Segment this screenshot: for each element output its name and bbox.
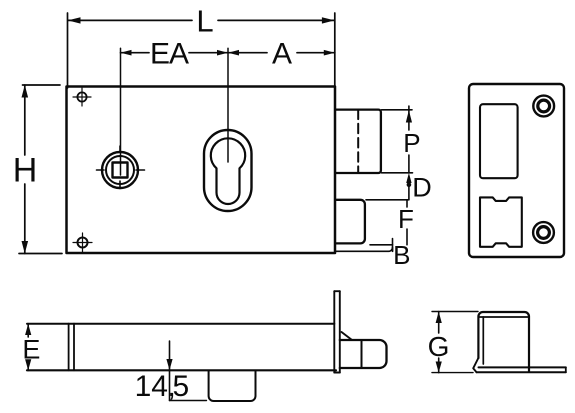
spindle hole (square follower) [97, 146, 145, 189]
dimension L line [68, 19, 335, 21]
strike side view: flange top edge [479, 366, 566, 368]
body bottom extension line [336, 247, 393, 251]
euro cylinder hole outer [204, 130, 252, 211]
dimension E arrows [25, 324, 31, 371]
svg-text:5: 5 [173, 370, 190, 403]
svg-text:EA: EA [150, 38, 189, 71]
dimension E line [27, 324, 29, 337]
svg-text:A: A [272, 38, 292, 71]
svg-text:H: H [13, 152, 38, 190]
L extension line left [67, 13, 69, 88]
strike side view: flange right cap [565, 367, 567, 372]
latch hidden line (dashed) [357, 110, 359, 173]
latch top extension line [382, 109, 413, 111]
svg-text:E: E [22, 335, 40, 365]
deadbolt top extension line [366, 199, 409, 201]
L extension line right [334, 13, 336, 88]
side view: case top edge [27, 323, 334, 325]
dimension 14,5 bottom tick [170, 400, 207, 402]
dimension G line [438, 312, 440, 334]
strike side view: inner left line [482, 317, 484, 364]
svg-text:F: F [398, 204, 414, 234]
screw hole bottom-left [73, 233, 92, 252]
dimension H arrows [22, 85, 29, 254]
dimension F line [406, 200, 408, 207]
strike plate front view [469, 84, 564, 257]
deadbolt front view [337, 200, 365, 244]
latch bottom extension line [382, 172, 413, 174]
dimension D line [408, 186, 410, 200]
svg-text:P: P [403, 128, 420, 158]
dimension A line [228, 52, 335, 54]
screw hole top-left [73, 88, 91, 106]
dimension 14,5 arrow [166, 359, 172, 370]
svg-text:D: D [412, 173, 432, 203]
side view: case bottom edge [27, 369, 336, 371]
svg-text:G: G [428, 331, 450, 362]
dimension G top extension [432, 311, 478, 313]
strike side view: box [478, 312, 529, 372]
side view: bottom tab [209, 371, 256, 401]
dimension B step line [392, 239, 394, 252]
dimension P line [408, 106, 410, 130]
dimension A arrows [228, 50, 335, 56]
latch bevel line [342, 332, 353, 340]
latch bolt front view [335, 110, 381, 173]
strike plate latch cutout [480, 104, 518, 178]
dimension EA arrows [121, 50, 229, 56]
strike screw hole bottom [533, 222, 554, 243]
dimension G arrows [436, 312, 442, 373]
dimension D bottom arrow [406, 173, 411, 183]
keyhole centerline [227, 48, 229, 162]
svg-text:14: 14 [135, 370, 168, 403]
dimension L arrows [68, 17, 335, 23]
strike side view: left lip [473, 358, 478, 373]
dimension G bottom extension [432, 372, 473, 374]
strike plate bolt cutout [480, 197, 522, 246]
dimension EA line [121, 52, 229, 54]
strike side view: flange bottom edge [477, 371, 566, 373]
deadbolt bottom extension line [370, 244, 393, 246]
dimension H line [24, 85, 26, 254]
svg-text:L: L [196, 4, 213, 39]
dimension 14,5 line [169, 341, 171, 401]
strike screw hole top [533, 96, 554, 117]
euro cylinder keyhole inner [211, 138, 245, 204]
svg-text:B: B [393, 240, 410, 270]
side view: faceplate [334, 291, 340, 372]
dimension P top arrow [406, 110, 412, 122]
strike side view: inner top line [480, 316, 529, 318]
latch divider line [361, 340, 363, 368]
side view: latch bolt [340, 340, 387, 368]
spindle centerline [120, 48, 122, 175]
lock body front view [67, 87, 336, 254]
side view: case left cap [68, 324, 70, 371]
dimension H ticks [23, 84, 61, 86]
